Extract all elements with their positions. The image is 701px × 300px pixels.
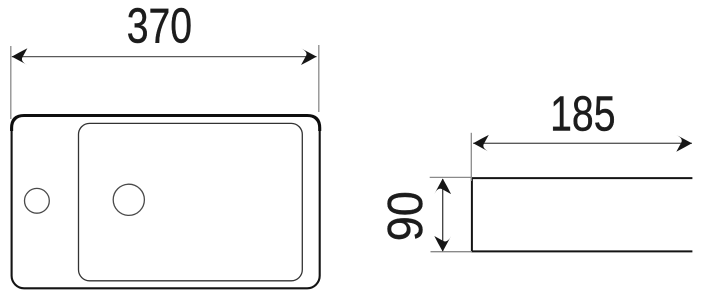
basin outer rim bbox=[12, 116, 320, 289]
basin inner bowl bbox=[79, 123, 303, 280]
basin top rim thick edge bbox=[12, 116, 320, 132]
extension line left (370 dim) bbox=[10, 46, 12, 119]
arrow left (370) bbox=[12, 48, 28, 65]
arrow up (90) bbox=[434, 179, 451, 195]
drain hole bbox=[113, 184, 144, 215]
extension line left (185 dim) bbox=[470, 133, 472, 181]
dimension text 185 bbox=[550, 87, 615, 141]
svg-text:370: 370 bbox=[127, 0, 192, 54]
dimension text 370 bbox=[127, 0, 192, 54]
arrow left (185) bbox=[473, 135, 489, 152]
arrow right (185) bbox=[676, 135, 692, 152]
side view outline (open right) bbox=[472, 178, 693, 251]
dimension line 370 bbox=[12, 56, 317, 58]
svg-text:185: 185 bbox=[550, 87, 615, 141]
arrow down (90) bbox=[434, 236, 451, 252]
faucet hole bbox=[25, 188, 50, 213]
dimension text 90 (rotated) bbox=[377, 191, 432, 241]
dimension line 185 bbox=[473, 142, 692, 144]
extension line bottom (90 dim) bbox=[431, 251, 473, 253]
svg-text:90: 90 bbox=[377, 191, 432, 241]
dimension line 90 (vertical) bbox=[442, 179, 444, 251]
arrow right (370) bbox=[301, 48, 317, 65]
extension line top (90 dim) bbox=[430, 176, 472, 178]
extension line right (370 dim) bbox=[318, 45, 320, 112]
